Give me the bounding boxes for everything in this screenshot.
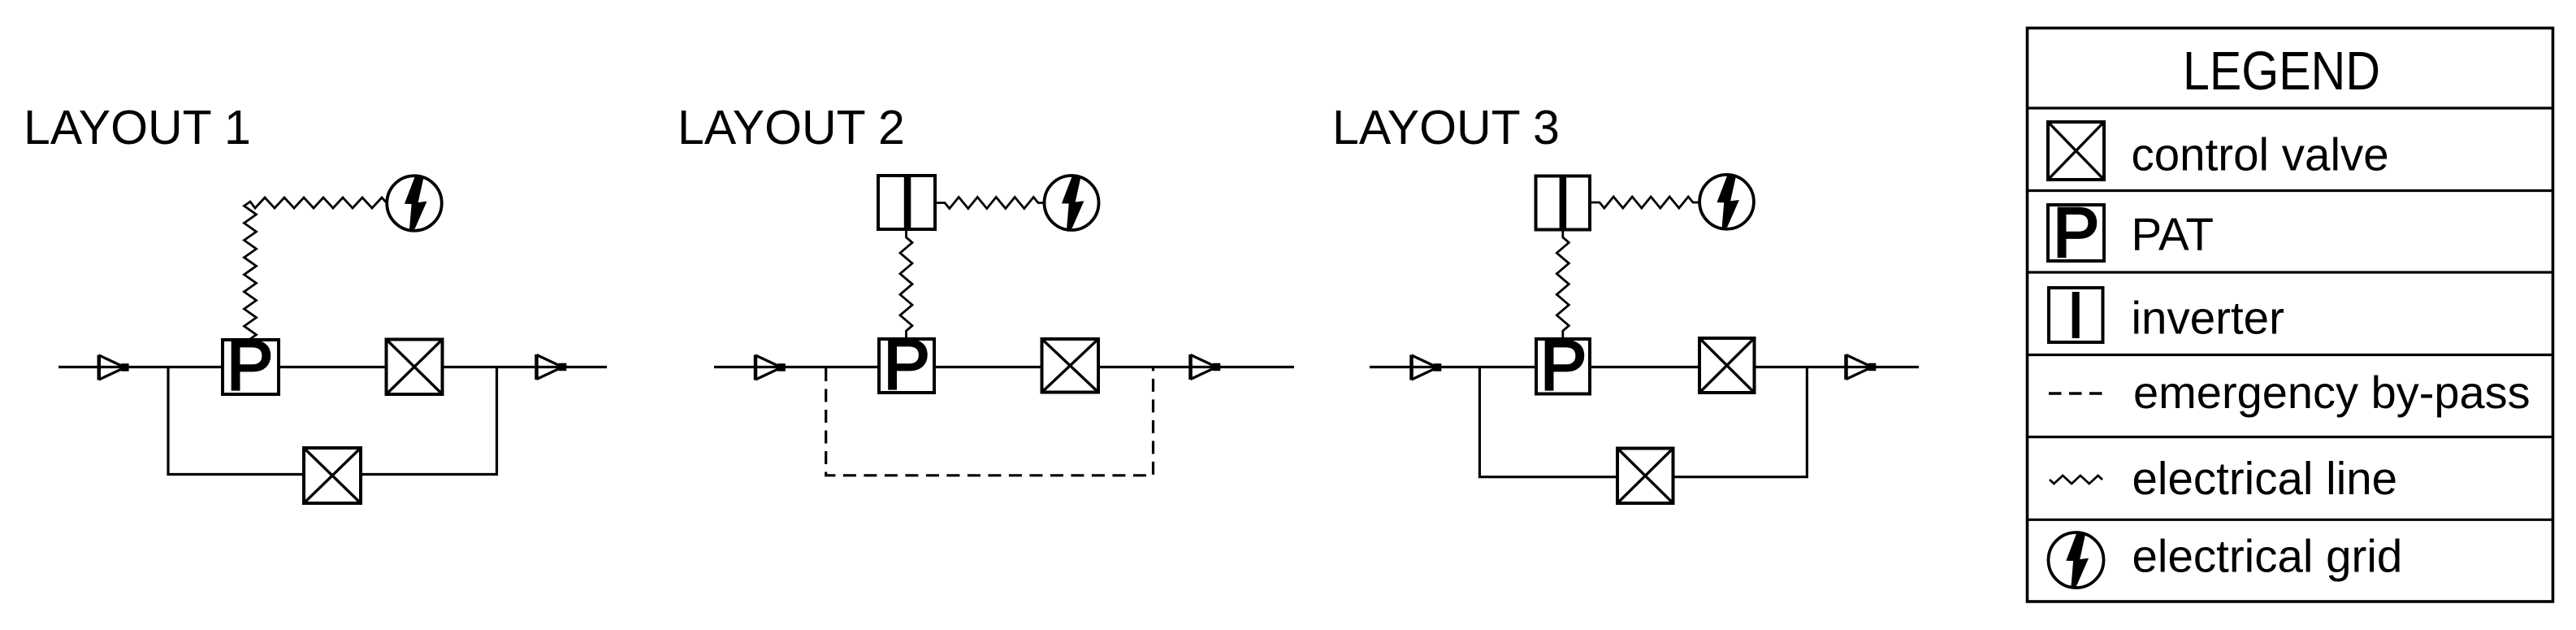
legend icon: PAT (2048, 194, 2104, 272)
svg-text:control valve: control valve (2132, 129, 2389, 180)
electrical line: layout 2 inverter to grid (horizontal zigzag) (935, 198, 1045, 209)
control valve V2 (layout 1 bypass) (304, 448, 361, 503)
legend row divider 5 (2028, 436, 2553, 438)
svg-text:P: P (2053, 194, 2099, 272)
control valve V1 (layout 1 main) (387, 340, 443, 395)
electrical line: layout 3 inverter to grid (horizontal zigzag) (1590, 197, 1699, 208)
svg-text:P: P (884, 326, 930, 404)
electrical line: layout 1 zigzag to grid (245, 198, 387, 339)
svg-text:emergency by-pass: emergency by-pass (2133, 367, 2531, 418)
legend icon: emergency by-pass (dashed line) (2049, 392, 2103, 395)
control valve V4 (layout 3 main) (1699, 338, 1755, 393)
wire: layout 3 main pipe (1370, 366, 1919, 368)
legend row divider 2 (2028, 189, 2553, 192)
electrical line: layout 3 inverter to PAT (vertical zigzag) (1556, 230, 1569, 340)
legend icon: electrical grid (2049, 532, 2104, 588)
svg-text:P: P (227, 327, 273, 405)
wire: layout 1 main pipe (58, 366, 607, 368)
legend row divider 4 (2028, 354, 2553, 356)
legend icon: inverter (2049, 288, 2103, 342)
flow arrow: layout 1 outlet (537, 354, 567, 380)
control valve V5 (layout 3 bypass) (1617, 449, 1673, 504)
electrical grid G3 (layout 3) (1699, 175, 1754, 229)
emergency by-pass wire (layout 2, dashed) (826, 368, 1154, 476)
wire: layout 2 main pipe (714, 366, 1294, 368)
svg-text:LAYOUT 2: LAYOUT 2 (678, 101, 905, 154)
svg-text:P: P (1540, 327, 1587, 405)
svg-text:LAYOUT 3: LAYOUT 3 (1332, 101, 1560, 154)
PAT P1 (layout 1) (223, 327, 279, 405)
flow arrow: layout 2 outlet (1191, 354, 1221, 380)
legend row divider 1 (2028, 106, 2553, 109)
svg-text:LAYOUT 1: LAYOUT 1 (24, 101, 251, 154)
PAT P3 (layout 3) (1536, 327, 1590, 405)
svg-text:inverter: inverter (2132, 292, 2284, 343)
svg-text:electrical line: electrical line (2132, 453, 2398, 504)
flow arrow: layout 1 inlet (99, 355, 129, 380)
legend icon: electrical line (zigzag) (2050, 476, 2102, 484)
PAT P2 (layout 2) (879, 326, 934, 404)
svg-text:PAT: PAT (2132, 209, 2214, 260)
legend row divider 3 (2028, 271, 2553, 273)
wire: layout 3 bypass loop (1479, 367, 1807, 477)
legend table frame (2028, 28, 2553, 602)
svg-text:LEGEND: LEGEND (2183, 41, 2380, 102)
legend row divider 6 (2028, 519, 2553, 521)
flow arrow: layout 2 inlet (755, 355, 786, 380)
wire: layout 1 bypass loop (168, 367, 497, 475)
flow arrow: layout 3 outlet (1846, 354, 1877, 380)
svg-text:electrical grid: electrical grid (2132, 531, 2403, 582)
legend icon: control valve (2048, 122, 2104, 180)
flow arrow: layout 3 inlet (1412, 355, 1442, 380)
electrical grid G1 (layout 1) (387, 176, 442, 231)
electrical grid G2 (layout 2) (1045, 176, 1099, 230)
electrical line: layout 2 inverter to PAT (vertical zigzag) (900, 229, 912, 339)
inverter I1 (layout 2) (878, 176, 935, 229)
inverter I2 (layout 3) (1536, 176, 1591, 230)
control valve V3 (layout 2 main) (1042, 339, 1099, 393)
